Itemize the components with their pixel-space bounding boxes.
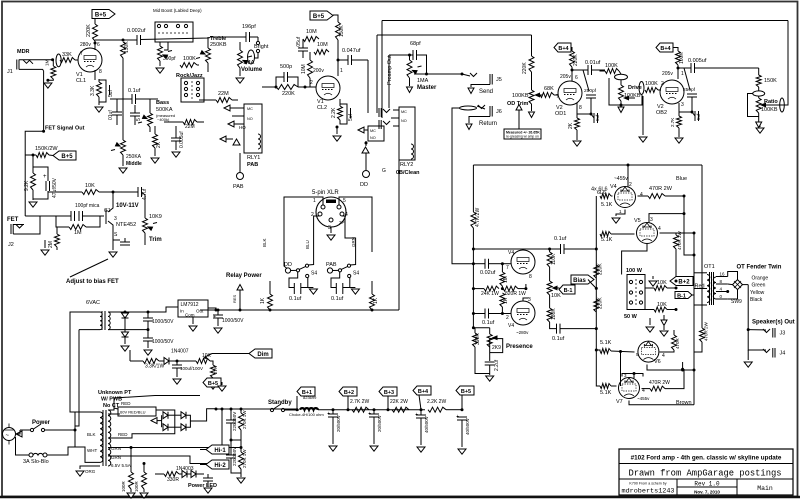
- svg-text:50 W: 50 W: [624, 314, 638, 320]
- svg-text:~400k): ~400k): [157, 117, 170, 122]
- svg-text:Nov. 7, 2010: Nov. 7, 2010: [694, 490, 720, 495]
- svg-text:Power: Power: [32, 420, 51, 426]
- svg-text:0.1uf: 0.1uf: [128, 88, 141, 94]
- svg-text:NO: NO: [401, 119, 407, 123]
- svg-text:Return: Return: [479, 121, 497, 127]
- svg-text:B+1: B+1: [302, 390, 312, 396]
- svg-text:1000/50V: 1000/50V: [222, 318, 244, 324]
- svg-text:7: 7: [80, 51, 83, 57]
- svg-text:PAB: PAB: [233, 184, 244, 190]
- svg-text:B+4: B+4: [660, 46, 671, 52]
- svg-text:Hi-2: Hi-2: [214, 463, 226, 469]
- svg-text:Yellow: Yellow: [750, 290, 765, 296]
- svg-text:500p: 500p: [280, 64, 292, 70]
- svg-text:22K 2W: 22K 2W: [390, 399, 408, 405]
- svg-text:2.2K 2W: 2.2K 2W: [427, 399, 446, 405]
- svg-text:2.2K: 2.2K: [331, 107, 337, 118]
- svg-text:+: +: [43, 174, 47, 180]
- svg-text:+: +: [213, 314, 216, 320]
- svg-text:DD: DD: [360, 182, 368, 188]
- svg-text:4x 6L6: 4x 6L6: [591, 187, 608, 193]
- svg-text:24K 1W: 24K 1W: [481, 291, 499, 297]
- svg-text:5uf: 5uf: [108, 89, 114, 97]
- svg-text:ORG: ORG: [85, 469, 96, 474]
- svg-text:1: 1: [313, 198, 316, 204]
- svg-text:68pf: 68pf: [410, 41, 421, 47]
- svg-text:250KA: 250KA: [126, 154, 142, 160]
- svg-text:+: +: [456, 414, 459, 420]
- svg-text:5-pin XLR: 5-pin XLR: [312, 190, 339, 196]
- svg-text:100KB: 100KB: [761, 107, 778, 113]
- svg-text:2K9: 2K9: [492, 345, 501, 351]
- svg-text:0.047uf: 0.047uf: [342, 48, 361, 54]
- svg-text:GRN: GRN: [351, 237, 356, 247]
- svg-text:200v: 200v: [313, 68, 324, 74]
- svg-text:WHT: WHT: [87, 448, 97, 453]
- svg-text:196pf: 196pf: [242, 24, 256, 30]
- svg-text:Mid Boost (Labled Deep): Mid Boost (Labled Deep): [153, 8, 202, 13]
- svg-text:V6: V6: [654, 359, 661, 365]
- svg-text:+: +: [415, 412, 418, 418]
- svg-text:+: +: [327, 411, 330, 417]
- svg-text:6: 6: [575, 75, 578, 81]
- svg-text:7: 7: [506, 265, 509, 271]
- svg-text:220K: 220K: [598, 263, 604, 275]
- svg-text:Out: Out: [196, 309, 204, 314]
- svg-text:BLK: BLK: [262, 238, 267, 247]
- svg-text:3.3K/1W: 3.3K/1W: [145, 364, 164, 370]
- svg-text:B+4: B+4: [558, 46, 569, 52]
- svg-text:Main: Main: [757, 485, 773, 492]
- svg-text:390pf: 390pf: [163, 56, 176, 62]
- svg-text:9.2K: 9.2K: [24, 180, 30, 191]
- svg-text:+: +: [368, 411, 371, 417]
- svg-text:22M: 22M: [185, 124, 195, 130]
- svg-text:SW9: SW9: [731, 299, 742, 305]
- svg-text:S4: S4: [311, 271, 317, 277]
- svg-text:Unknown PT: Unknown PT: [98, 390, 132, 396]
- svg-text:V4: V4: [508, 323, 514, 329]
- svg-text:110K: 110K: [551, 253, 557, 265]
- svg-text:33K: 33K: [62, 52, 72, 58]
- svg-text:100R: 100R: [134, 480, 139, 492]
- svg-text:Dim: Dim: [257, 352, 268, 358]
- svg-text:2K: 2K: [568, 122, 574, 129]
- svg-text:150K: 150K: [764, 78, 777, 84]
- svg-text:Ratio: Ratio: [764, 99, 778, 105]
- svg-text:OD1: OD1: [555, 111, 566, 117]
- svg-text:6: 6: [97, 42, 100, 48]
- svg-text:270K 1W: 270K 1W: [242, 410, 247, 429]
- svg-text:HO: HO: [239, 125, 246, 130]
- svg-text:0.005uf: 0.005uf: [179, 131, 185, 148]
- svg-text:10M: 10M: [317, 42, 328, 48]
- svg-text:In: In: [180, 309, 184, 314]
- svg-text:GRN: GRN: [111, 446, 121, 451]
- svg-text:K790 From a schem by: K790 From a schem by: [629, 482, 666, 486]
- svg-text:Volume: Volume: [241, 67, 263, 73]
- svg-text:B+3: B+3: [384, 390, 394, 396]
- svg-text:RES: RES: [232, 294, 237, 303]
- svg-text:Send: Send: [479, 89, 493, 95]
- svg-text:mdroberts1243: mdroberts1243: [621, 488, 674, 496]
- svg-text:Drive: Drive: [628, 85, 642, 91]
- svg-text:re-greasing w/ amp on: re-greasing w/ amp on: [506, 135, 539, 139]
- svg-text:Master: Master: [417, 85, 437, 91]
- svg-text:No CT: No CT: [103, 403, 120, 409]
- svg-text:250pf: 250pf: [683, 87, 696, 93]
- svg-text:NO: NO: [370, 136, 376, 140]
- svg-text:470R 2W: 470R 2W: [649, 380, 670, 386]
- svg-text:MC: MC: [370, 129, 376, 133]
- svg-text:OT1: OT1: [704, 264, 715, 270]
- svg-text:Black: Black: [750, 297, 763, 303]
- svg-text:Power LED: Power LED: [188, 483, 217, 489]
- svg-text:Blue: Blue: [676, 176, 687, 182]
- svg-text:220K: 220K: [282, 91, 295, 97]
- svg-text:270K 1W: 270K 1W: [242, 449, 247, 468]
- svg-text:.05uf: .05uf: [296, 36, 302, 48]
- svg-text:Preamp Out: Preamp Out: [387, 55, 393, 85]
- svg-text:Orange: Orange: [752, 276, 769, 282]
- svg-text:3: 3: [681, 102, 684, 108]
- svg-text:PAB: PAB: [326, 262, 337, 268]
- svg-text:100K: 100K: [645, 81, 658, 87]
- svg-text:J2: J2: [8, 242, 14, 248]
- svg-text:8: 8: [579, 105, 582, 111]
- svg-text:1000/50V: 1000/50V: [152, 319, 174, 325]
- svg-text:20/500V: 20/500V: [336, 415, 341, 432]
- svg-text:7: 7: [556, 94, 559, 100]
- svg-text:0.1uf: 0.1uf: [482, 320, 495, 326]
- svg-text:10M: 10M: [301, 64, 307, 74]
- svg-text:CL2: CL2: [317, 105, 327, 111]
- svg-text:B+4: B+4: [418, 389, 429, 395]
- svg-text:1M: 1M: [45, 59, 50, 66]
- svg-text:220/350V: 220/350V: [232, 447, 237, 466]
- svg-text:B+5: B+5: [208, 381, 218, 387]
- svg-text:3A Slo-Blo: 3A Slo-Blo: [23, 459, 49, 465]
- svg-text:220K: 220K: [522, 62, 528, 74]
- svg-text:Bass: Bass: [156, 100, 169, 106]
- svg-text:280v: 280v: [80, 42, 91, 48]
- svg-text:OT Fender Twin: OT Fender Twin: [737, 265, 782, 271]
- svg-text:Trim: Trim: [149, 237, 162, 243]
- svg-text:10K: 10K: [657, 302, 667, 308]
- svg-text:Choke-4H/100 ohm: Choke-4H/100 ohm: [289, 412, 324, 417]
- svg-text:0.02uf: 0.02uf: [480, 270, 496, 276]
- svg-text:390R: 390R: [475, 333, 481, 345]
- svg-text:10K: 10K: [85, 183, 95, 189]
- svg-text:22M: 22M: [218, 91, 229, 97]
- svg-text:B+5: B+5: [95, 13, 107, 19]
- svg-text:0.1uf: 0.1uf: [552, 336, 565, 342]
- svg-text:OB2: OB2: [656, 110, 667, 116]
- svg-text:B+5: B+5: [313, 14, 325, 20]
- svg-text:10K: 10K: [551, 293, 561, 299]
- svg-text:68K: 68K: [544, 86, 554, 92]
- svg-text:3: 3: [650, 217, 653, 223]
- svg-text:180K: 180K: [551, 308, 557, 320]
- svg-text:FET Signal Out: FET Signal Out: [45, 126, 85, 132]
- svg-text:Drawn from AmpGarage postings: Drawn from AmpGarage postings: [628, 469, 781, 479]
- svg-text:5: 5: [136, 118, 142, 121]
- svg-text:~: ~: [6, 433, 10, 439]
- svg-text:20/500V: 20/500V: [377, 415, 382, 432]
- svg-text:100 W: 100 W: [626, 268, 643, 274]
- svg-text:S4: S4: [353, 271, 359, 277]
- svg-text:1: 1: [340, 68, 343, 74]
- svg-text:J1: J1: [7, 69, 13, 75]
- svg-text:Green: Green: [752, 283, 766, 289]
- svg-text:RED: RED: [118, 432, 128, 437]
- svg-text:40/500V: 40/500V: [465, 418, 470, 435]
- svg-text:8: 8: [529, 274, 532, 280]
- svg-text:5.1K: 5.1K: [600, 340, 612, 346]
- svg-text:Speaker(s) Out: Speaker(s) Out: [752, 320, 795, 326]
- svg-text:3.3K: 3.3K: [90, 85, 96, 96]
- svg-text:RED: RED: [121, 401, 131, 406]
- svg-text:100K: 100K: [679, 52, 685, 64]
- svg-text:RLY1: RLY1: [247, 155, 260, 161]
- svg-text:150K/2W: 150K/2W: [35, 146, 58, 152]
- svg-text:Hi-1: Hi-1: [214, 448, 226, 454]
- svg-text:205v: 205v: [662, 71, 673, 77]
- svg-text:~280v: ~280v: [516, 330, 529, 335]
- svg-text:220/350V: 220/350V: [232, 412, 237, 431]
- svg-text:0.1uf: 0.1uf: [554, 236, 567, 242]
- svg-text:B+2: B+2: [678, 280, 690, 286]
- svg-text:220K: 220K: [598, 297, 604, 309]
- svg-text:BLK: BLK: [87, 432, 96, 437]
- svg-text:B+2: B+2: [344, 390, 354, 396]
- svg-text:FET: FET: [7, 217, 19, 223]
- svg-text:3: 3: [114, 216, 117, 222]
- svg-text:BLU: BLU: [305, 240, 310, 249]
- svg-text:10V-11V: 10V-11V: [116, 203, 139, 209]
- svg-text:Relay Power: Relay Power: [226, 273, 262, 279]
- svg-text:470R 2W: 470R 2W: [649, 186, 673, 192]
- svg-text:Adjust to bias FET: Adjust to bias FET: [66, 279, 119, 285]
- svg-text:LM7912: LM7912: [181, 302, 199, 308]
- svg-text:Bright: Bright: [254, 44, 269, 50]
- svg-text:5: 5: [343, 198, 346, 204]
- svg-text:100pf mica: 100pf mica: [75, 203, 100, 209]
- svg-text:5.1K: 5.1K: [601, 237, 613, 243]
- svg-text:2: 2: [506, 315, 509, 321]
- svg-text:820R 1W: 820R 1W: [505, 291, 526, 297]
- svg-text:Com: Com: [185, 313, 195, 318]
- svg-text:4: 4: [658, 226, 661, 232]
- svg-text:V7: V7: [616, 399, 623, 405]
- svg-text:330R: 330R: [167, 477, 179, 483]
- svg-text:60V RED/BLU: 60V RED/BLU: [120, 410, 146, 415]
- svg-text:NO: NO: [247, 117, 253, 121]
- svg-text:~455v: ~455v: [637, 396, 650, 401]
- svg-text:8: 8: [99, 69, 102, 75]
- svg-text:100R: 100R: [121, 480, 126, 492]
- svg-text:1K: 1K: [503, 297, 509, 304]
- svg-text:J5: J5: [496, 77, 502, 83]
- svg-text:1MA: 1MA: [417, 78, 429, 84]
- svg-text:1N4007: 1N4007: [171, 349, 189, 355]
- svg-text:150K: 150K: [124, 41, 130, 53]
- svg-text:1K: 1K: [260, 297, 266, 304]
- svg-text:2M: 2M: [48, 241, 54, 248]
- svg-text:100uf/100V: 100uf/100V: [180, 366, 203, 371]
- svg-text:MDR: MDR: [17, 49, 30, 55]
- svg-text:47uf/50V: 47uf/50V: [52, 177, 58, 198]
- svg-text:MC: MC: [401, 110, 407, 114]
- svg-text:MC: MC: [247, 107, 253, 111]
- svg-text:250pf: 250pf: [584, 88, 597, 94]
- svg-text:2: 2: [310, 80, 313, 86]
- svg-text:6VAC: 6VAC: [86, 300, 100, 306]
- svg-text:220K: 220K: [86, 24, 92, 37]
- svg-text:0.002uf: 0.002uf: [127, 28, 146, 34]
- svg-text:2.7K: 2.7K: [670, 118, 675, 127]
- svg-text:2.7K 2W: 2.7K 2W: [350, 399, 369, 405]
- svg-text:6.5V 5.5A: 6.5V 5.5A: [111, 463, 131, 468]
- svg-text:J3: J3: [780, 331, 786, 337]
- svg-text:4: 4: [662, 353, 665, 359]
- svg-text:B-1: B-1: [564, 288, 573, 294]
- svg-text:G: G: [382, 168, 386, 174]
- svg-text:0B/Clean: 0B/Clean: [396, 170, 420, 176]
- svg-text:B+5: B+5: [461, 389, 471, 395]
- svg-text:CL1: CL1: [76, 78, 86, 84]
- svg-text:1000/50V: 1000/50V: [152, 339, 174, 345]
- svg-text:10M: 10M: [306, 29, 317, 35]
- svg-text:0.1uf: 0.1uf: [289, 296, 302, 302]
- svg-text:205v: 205v: [560, 74, 571, 80]
- svg-text:40/500V: 40/500V: [424, 416, 429, 433]
- svg-text:Bias: Bias: [573, 278, 586, 284]
- svg-text:100KB: 100KB: [624, 93, 641, 99]
- svg-text:1M: 1M: [503, 276, 509, 283]
- svg-text:#102 Ford amp - 4th gen. class: #102 Ford amp - 4th gen. classic w/ skyl…: [631, 455, 782, 462]
- svg-text:100KB: 100KB: [512, 93, 529, 99]
- svg-text:470R: 470R: [675, 337, 680, 349]
- svg-text:150K: 150K: [339, 25, 345, 37]
- svg-text:NTE452: NTE452: [116, 222, 136, 228]
- svg-text:5.1K: 5.1K: [601, 202, 613, 208]
- svg-text:16: 16: [720, 272, 726, 277]
- svg-text:220K: 220K: [573, 54, 579, 66]
- svg-text:2P: 2P: [339, 220, 345, 225]
- svg-text:V5: V5: [634, 218, 641, 224]
- svg-text:0.01uf: 0.01uf: [585, 60, 601, 66]
- svg-text:5.1K: 5.1K: [600, 390, 612, 396]
- svg-text:B-1: B-1: [677, 294, 686, 300]
- svg-text:10K9: 10K9: [149, 214, 162, 220]
- svg-text:J4: J4: [780, 351, 786, 357]
- svg-text:~455v: ~455v: [614, 176, 628, 182]
- svg-text:1: 1: [681, 71, 684, 77]
- svg-text:PAB: PAB: [247, 162, 258, 168]
- svg-text:Rev 1.0: Rev 1.0: [694, 481, 720, 488]
- svg-text:0.1uf: 0.1uf: [331, 296, 344, 302]
- svg-text:B+5: B+5: [61, 154, 73, 160]
- svg-text:4: 4: [640, 192, 643, 198]
- svg-text:Presence: Presence: [506, 344, 533, 350]
- svg-text:250KB: 250KB: [210, 42, 227, 48]
- svg-text:J6: J6: [496, 109, 502, 115]
- svg-text:2K: 2K: [156, 141, 162, 148]
- svg-text:100K: 100K: [183, 56, 196, 62]
- svg-text:4.7K/2W: 4.7K/2W: [475, 208, 481, 227]
- svg-text:10K: 10K: [657, 280, 667, 286]
- svg-text:V4: V4: [610, 184, 617, 190]
- svg-text:2.2uf: 2.2uf: [494, 359, 500, 371]
- svg-text:1M: 1M: [74, 230, 82, 236]
- svg-text:RLY2: RLY2: [400, 162, 413, 168]
- svg-text:Middle: Middle: [126, 161, 142, 167]
